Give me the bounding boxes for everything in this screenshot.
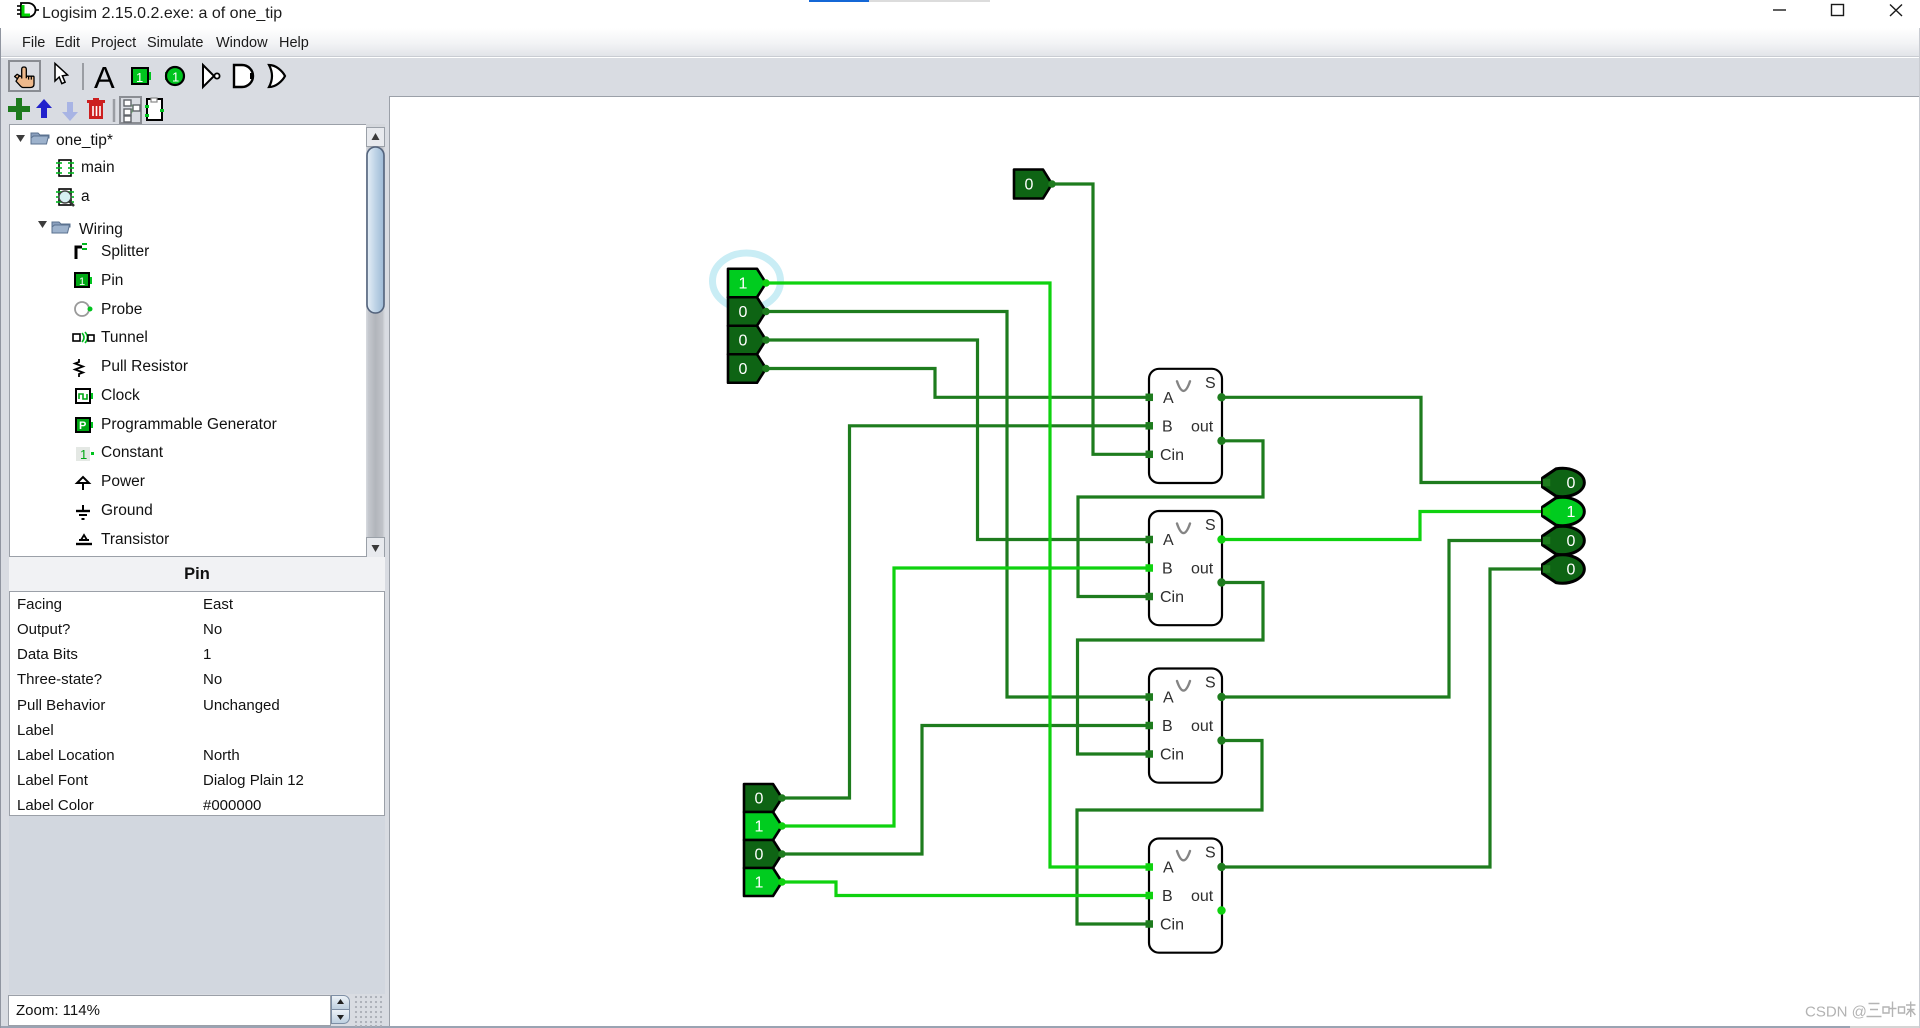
svg-text:Cin: Cin — [1160, 447, 1184, 464]
svg-text:out: out — [1191, 561, 1214, 578]
svg-text:1: 1 — [1567, 504, 1576, 521]
svg-text:Cin: Cin — [1160, 917, 1184, 934]
svg-text:0: 0 — [739, 333, 748, 350]
svg-text:B: B — [1162, 718, 1173, 735]
svg-text:1: 1 — [80, 447, 87, 462]
svg-text:1: 1 — [79, 276, 85, 288]
svg-text:out: out — [1191, 418, 1214, 435]
svg-text:0: 0 — [739, 304, 748, 321]
svg-text:Cin: Cin — [1160, 589, 1184, 606]
svg-text:0: 0 — [1567, 475, 1576, 492]
svg-text:0: 0 — [755, 791, 764, 808]
svg-text:0: 0 — [739, 361, 748, 378]
svg-text:B: B — [1162, 561, 1173, 578]
svg-text:A: A — [1163, 690, 1174, 707]
svg-text:A: A — [1163, 860, 1174, 877]
svg-text:0: 0 — [1567, 562, 1576, 579]
svg-text:out: out — [1191, 888, 1214, 905]
svg-text:Cin: Cin — [1160, 747, 1184, 764]
svg-text:1: 1 — [755, 819, 764, 836]
svg-text:S: S — [1205, 375, 1216, 392]
svg-text:S: S — [1205, 517, 1216, 534]
svg-text:0: 0 — [755, 847, 764, 864]
svg-text:1: 1 — [172, 70, 179, 85]
svg-text:out: out — [1191, 718, 1214, 735]
svg-text:B: B — [1162, 418, 1173, 435]
svg-text:0: 0 — [1567, 533, 1576, 550]
svg-text:P: P — [79, 420, 86, 432]
svg-text:A: A — [1163, 390, 1174, 407]
svg-text:1: 1 — [136, 70, 143, 85]
svg-text:A: A — [94, 60, 115, 95]
svg-text:S: S — [1205, 675, 1216, 692]
svg-text:CSDN @: CSDN @ — [1805, 1004, 1867, 1021]
svg-text:0: 0 — [1025, 177, 1034, 194]
svg-text:B: B — [1162, 888, 1173, 905]
svg-text:1: 1 — [739, 276, 748, 293]
svg-text:1: 1 — [755, 875, 764, 892]
svg-text:A: A — [1163, 532, 1174, 549]
svg-text:S: S — [1205, 845, 1216, 862]
